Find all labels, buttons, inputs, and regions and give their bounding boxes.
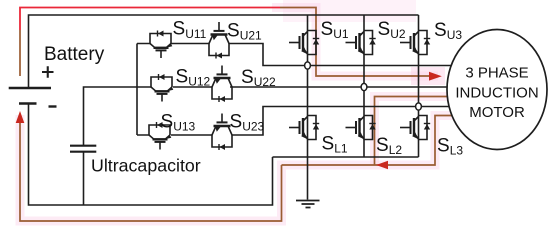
node phase C [416,103,422,110]
svg-text:Ultracapacitor: Ultracapacitor [91,156,201,176]
motor M1 ellipse [447,30,547,150]
dark red return from motor phase B [375,97,451,166]
ground [296,201,320,208]
halo along red feed path [272,8,438,77]
wire emitter bus [273,156,419,158]
transistor SU22 [212,66,232,103]
dark red bottom return to battery minus [20,123,282,221]
wire inverter leg2 [363,15,365,157]
arrow into battery minus pointing up [16,111,25,123]
wire matrix left bus [136,44,138,136]
pink jpeg halo band top [283,0,416,22]
transistor SU21 [209,22,229,59]
transistor SL3 [400,116,430,140]
transistor SU23 [212,114,232,151]
svg-text:Battery: Battery [44,44,105,65]
wire row3 segments [137,107,452,136]
transistor SL2 [346,116,376,140]
arrow feed into motor [429,72,442,81]
svg-text:3 PHASE: 3 PHASE [465,65,528,82]
halo along return paths [375,97,451,166]
battery plus sign [42,66,54,77]
wire inverter leg1 [307,15,309,157]
arrow return pointing left [376,161,388,170]
wire ground lead [307,157,309,200]
node phase B [361,83,367,90]
svg-text:MOTOR: MOTOR [469,104,525,121]
transistor SU1 [289,31,319,55]
svg-text:INDUCTION: INDUCTION [455,85,538,102]
wire battery minus down and bottom bus [29,104,273,206]
wire ultracapacitor bottom lead [83,152,85,205]
node phase A [305,62,311,69]
wire battery plus stub and top dc bus [29,15,419,88]
dark red wire battery vertical lower part [19,30,21,76]
transistor SU11 [150,31,172,59]
wire row1 segments [137,44,455,66]
dark red return from motor phase C [282,116,454,166]
battery plate positive [9,87,51,89]
battery plate negative [19,102,37,104]
dark red wire top run down to motor feed [280,8,429,77]
red wire from battery plus to top [20,8,280,31]
transistor SU2 [346,31,376,55]
pink jpeg halo at feed arrow [411,67,445,85]
transistor SU13 [149,122,171,150]
transistor SL1 [289,116,319,140]
transistor SU12 [151,74,173,102]
wire inverter leg3 [418,15,420,157]
transistor SU3 [400,31,430,55]
wire ultracapacitor top lead to matrix row2 [84,87,152,146]
capacitor C1 ultracapacitor plates [70,146,96,152]
wire row2 segments [173,86,450,88]
battery minus sign [49,105,57,107]
